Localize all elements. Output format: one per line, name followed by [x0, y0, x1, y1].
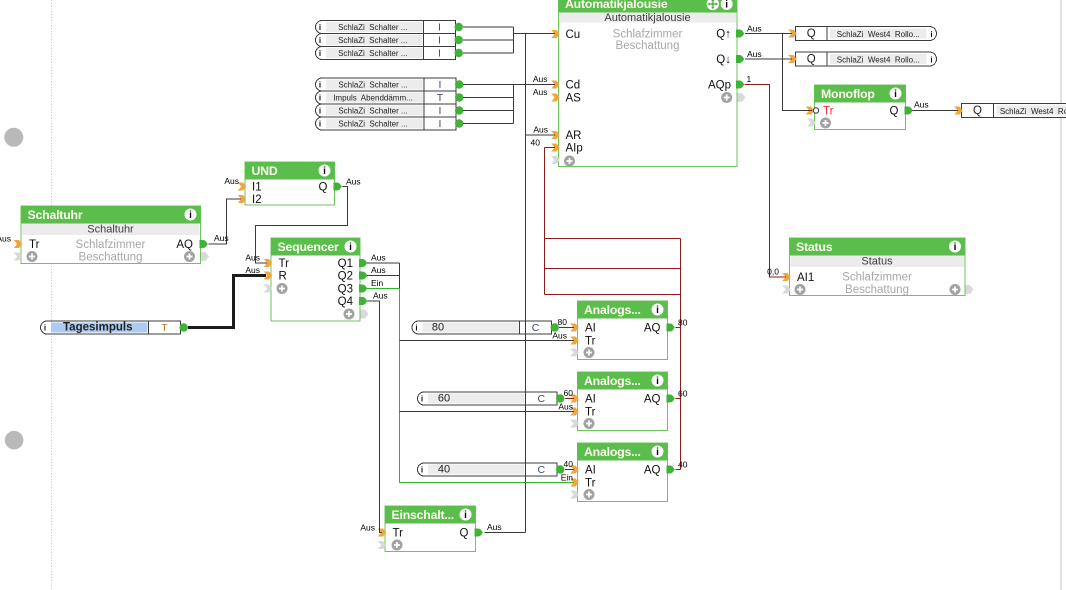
- svg-text:Tagesimpuls: Tagesimpuls: [63, 321, 132, 333]
- pin Q Einschalt: [475, 529, 483, 537]
- page anchor dot bottom: [5, 431, 24, 450]
- expand input plus Schaltuhr: [27, 251, 38, 262]
- icon info UND: [319, 165, 331, 178]
- output stub Schaltuhr: [201, 252, 209, 261]
- input stub AnalogSwitch1: [570, 349, 579, 357]
- block Sequencer U4: [271, 238, 360, 321]
- svg-text:Aus: Aus: [371, 265, 386, 275]
- svg-text:Q: Q: [460, 528, 469, 540]
- svg-text:80: 80: [678, 318, 688, 328]
- block Schaltuhr U2: [21, 206, 201, 264]
- expand input plus Automatikjalousie: [564, 156, 575, 167]
- pin Q UND: [334, 183, 342, 191]
- svg-text:SchlaZi Schalter ...: SchlaZi Schalter ...: [338, 23, 407, 32]
- pin I2: [238, 195, 247, 203]
- svg-text:60: 60: [438, 392, 450, 404]
- svg-text:UND: UND: [252, 164, 278, 178]
- output ref SchlaZi West4 Rollo 2: [796, 52, 937, 66]
- svg-text:AS: AS: [566, 93, 582, 105]
- svg-text:Q↑: Q↑: [716, 29, 731, 41]
- svg-text:SchlaZi West4 Rollo...: SchlaZi West4 Rollo...: [837, 30, 920, 39]
- expand input plus Sequencer: [277, 283, 288, 294]
- input ref SchlaZi Schalter 4: [316, 78, 457, 91]
- svg-text:i: i: [319, 81, 321, 90]
- pin AQ Schaltuhr: [200, 240, 208, 248]
- icon info Status: [949, 241, 961, 254]
- wire Einschalt Q / switches bus to Cu and AR (long vertical x525.5): [485, 34, 556, 533]
- expand output plus Sequencer: [344, 309, 355, 320]
- svg-text:i: i: [319, 49, 321, 58]
- svg-text:Aus: Aus: [214, 233, 229, 243]
- svg-text:40: 40: [438, 463, 450, 475]
- block Automatikjalousie U1: [559, 0, 738, 167]
- output stub Status: [966, 285, 974, 294]
- wire branch to AnalogSwitch1 Tr: [400, 340, 575, 342]
- svg-text:Ein: Ein: [371, 278, 384, 288]
- svg-text:I1: I1: [252, 182, 262, 194]
- page margin dotted line: [51, 0, 53, 589]
- pin AI AnalogSwitch2: [570, 395, 579, 403]
- svg-text:i: i: [323, 166, 326, 177]
- input ref SchlaZi Schalter 6: [316, 117, 457, 130]
- input ref value 40: [418, 463, 557, 476]
- input stub Sequencer: [264, 285, 273, 293]
- svg-text:Schaltuhr: Schaltuhr: [28, 208, 83, 222]
- block AnalogSwitch3 (Analogs...): [578, 443, 668, 502]
- pin Q3: [359, 285, 367, 293]
- svg-text:Aus: Aus: [747, 24, 762, 34]
- wire Schaltuhr AQ to UND I2: [209, 199, 242, 244]
- svg-text:SchlaZi Schalter ...: SchlaZi Schalter ...: [338, 119, 407, 128]
- input ref value 60: [418, 392, 557, 405]
- pin Tr AnalogSwitch3: [570, 479, 579, 487]
- svg-text:I: I: [439, 79, 442, 91]
- svg-text:Q: Q: [319, 182, 328, 194]
- icon info Schaltuhr: [185, 209, 197, 222]
- svg-text:i: i: [319, 36, 321, 45]
- svg-text:SchlaZi West4 Ro: SchlaZi West4 Ro: [1000, 107, 1066, 116]
- pin Q2: [359, 272, 367, 280]
- pin Tr AnalogSwitch2: [570, 408, 579, 416]
- pin R Sequencer: [264, 272, 273, 280]
- svg-text:i: i: [656, 447, 659, 458]
- icon info Monoflop: [890, 88, 902, 101]
- svg-text:T: T: [161, 322, 168, 334]
- input ref SchlaZi Schalter 5: [316, 104, 457, 117]
- input ref Impuls Abenddaemmerung: [316, 91, 456, 104]
- input ref Tagesimpuls (selected): [41, 321, 181, 334]
- input stub Status: [782, 286, 791, 294]
- expand input plus Monoflop: [820, 118, 831, 129]
- svg-text:60: 60: [564, 388, 574, 398]
- svg-text:i: i: [189, 210, 192, 221]
- svg-text:Schaltuhr: Schaltuhr: [87, 224, 134, 236]
- svg-text:I2: I2: [252, 194, 262, 206]
- svg-text:AI: AI: [585, 323, 596, 335]
- pin AQ AnalogSwitch1: [667, 324, 675, 332]
- svg-text:Aus: Aus: [360, 523, 375, 533]
- wire value 40 to AI: [565, 469, 574, 471]
- icon info AnalogSwitch1: [652, 304, 664, 317]
- svg-text:I: I: [439, 105, 442, 117]
- pin Tr Einschalt: [378, 529, 387, 537]
- input stub Automatikjalousie: [551, 156, 560, 164]
- svg-text:AQp: AQp: [708, 80, 731, 92]
- wire Sequencer Q4 to Einschalt Tr: [367, 301, 382, 533]
- svg-text:Cu: Cu: [566, 29, 581, 41]
- wire AQp to Status AI1 (dark red): [745, 85, 787, 278]
- svg-text:AQ: AQ: [644, 323, 661, 335]
- svg-text:i: i: [421, 466, 423, 475]
- wire Sequencer Q3 to AnalogSwitch3 Tr (green, Ein): [367, 289, 574, 483]
- expand input plus Status: [795, 284, 806, 295]
- input stub AnalogSwitch2: [570, 420, 579, 428]
- svg-text:Aus: Aus: [747, 49, 762, 59]
- svg-text:i: i: [319, 120, 321, 129]
- svg-text:Aus: Aus: [373, 291, 388, 301]
- input ref SchlaZi Schalter 1: [316, 21, 456, 34]
- pin Tr Sequencer: [264, 259, 273, 267]
- pin Q-down: [736, 55, 744, 63]
- wire net group2 to Cd (vertical bus x513): [463, 85, 555, 124]
- svg-text:Q: Q: [973, 105, 982, 117]
- wire value 60 to AI: [565, 398, 574, 400]
- svg-text:Automatikjalousie: Automatikjalousie: [565, 0, 668, 11]
- svg-text:Aus: Aus: [346, 177, 361, 187]
- input stub Einschalt: [378, 541, 387, 549]
- svg-text:C: C: [537, 464, 545, 476]
- svg-text:I: I: [438, 48, 441, 60]
- wire AnalogSwitch AQ outputs to AIp (dark red bus): [545, 148, 681, 470]
- svg-text:Impuls Abenddämm...: Impuls Abenddämm...: [333, 93, 413, 102]
- pin Tr Monoflop inverted: [806, 107, 815, 115]
- expand input plus AnalogSwitch2: [584, 418, 595, 429]
- svg-text:Aus: Aus: [533, 125, 548, 135]
- wire net switches to Cu (vertical bus x513): [463, 27, 555, 53]
- svg-text:AI: AI: [585, 465, 596, 477]
- pin AQp: [736, 81, 744, 89]
- svg-text:Monoflop: Monoflop: [821, 87, 875, 101]
- svg-text:AQ: AQ: [644, 394, 661, 406]
- block Monoflop U5: [815, 85, 906, 130]
- svg-text:Tr: Tr: [585, 478, 596, 490]
- icon info Automatikjalousie: [721, 0, 733, 11]
- svg-text:i: i: [421, 395, 423, 404]
- pin Q4: [359, 297, 367, 305]
- svg-text:SchlaZi Schalter ...: SchlaZi Schalter ...: [338, 80, 407, 89]
- input ref SchlaZi Schalter 3: [316, 47, 456, 60]
- svg-text:I: I: [438, 22, 441, 34]
- svg-text:AIp: AIp: [566, 143, 583, 155]
- svg-text:Tr: Tr: [585, 407, 596, 419]
- page anchor dot top: [4, 128, 23, 147]
- svg-text:Q↓: Q↓: [716, 54, 731, 66]
- svg-text:Aus: Aus: [533, 87, 548, 97]
- svg-text:Tr: Tr: [585, 336, 596, 348]
- svg-text:i: i: [319, 107, 321, 116]
- svg-text:40: 40: [678, 460, 688, 470]
- svg-text:i: i: [349, 242, 352, 253]
- expand output plus Schaltuhr: [184, 251, 195, 262]
- svg-text:AR: AR: [566, 130, 582, 142]
- svg-text:i: i: [319, 94, 321, 103]
- output stub Automatikjalousie: [738, 93, 746, 102]
- input stub Schaltuhr: [14, 253, 23, 261]
- svg-text:i: i: [464, 510, 467, 521]
- svg-text:Aus: Aus: [224, 176, 239, 186]
- expand output plus Automatikjalousie: [721, 92, 732, 103]
- input ref value 80: [412, 321, 551, 334]
- svg-text:Q: Q: [890, 106, 899, 118]
- svg-text:Analogs...: Analogs...: [584, 374, 641, 388]
- pin AI1: [782, 273, 791, 281]
- pin Q Monoflop: [905, 107, 913, 115]
- svg-text:Status: Status: [861, 256, 893, 268]
- block UND U3: [245, 162, 335, 205]
- svg-text:i: i: [656, 305, 659, 316]
- svg-text:AI: AI: [585, 394, 596, 406]
- wire Q-up to output ref and Monoflop Tr: [745, 34, 812, 111]
- icon info Sequencer: [345, 241, 357, 254]
- output ref SchlaZi West4 Rollo 1: [796, 27, 937, 41]
- pin Tr Schaltuhr: [14, 240, 23, 248]
- block AnalogSwitch1 (Analogs...): [578, 301, 668, 360]
- icon info AnalogSwitch3: [652, 446, 664, 459]
- icon move crosshair Automatikjalousie: [707, 0, 719, 10]
- svg-text:SchlaZi West4 Rollo...: SchlaZi West4 Rollo...: [837, 55, 920, 64]
- svg-text:Tr: Tr: [279, 258, 290, 270]
- svg-text:Aus: Aus: [371, 253, 386, 263]
- svg-text:Einschalt...: Einschalt...: [392, 508, 455, 522]
- svg-text:40: 40: [531, 138, 541, 148]
- svg-text:i: i: [44, 324, 46, 333]
- svg-text:Q: Q: [807, 54, 816, 66]
- block Status U6: [790, 238, 966, 296]
- svg-text:SchlaZi Schalter ...: SchlaZi Schalter ...: [338, 36, 407, 45]
- svg-text:I: I: [439, 118, 442, 130]
- svg-text:Aus: Aus: [552, 331, 567, 341]
- block Einschaltverzoegerung U10 (Einschalt...): [385, 506, 476, 552]
- svg-text:Aus: Aus: [245, 253, 260, 263]
- expand input plus Einschalt: [392, 540, 403, 551]
- input stub AnalogSwitch3: [570, 491, 579, 499]
- svg-text:Q3: Q3: [338, 284, 353, 296]
- svg-text:i: i: [656, 376, 659, 387]
- svg-text:i: i: [954, 242, 957, 253]
- svg-text:Beschattung: Beschattung: [79, 252, 143, 264]
- input stub Monoflop: [807, 119, 816, 127]
- pin AI AnalogSwitch1: [570, 324, 579, 332]
- svg-text:Beschattung: Beschattung: [845, 284, 909, 296]
- window edge line right: [1060, 0, 1062, 590]
- icon info Einschalt: [460, 509, 472, 522]
- expand input plus AnalogSwitch1: [584, 347, 595, 358]
- pin AI AnalogSwitch3: [570, 466, 579, 474]
- svg-text:AQ: AQ: [176, 239, 193, 251]
- svg-text:80: 80: [432, 321, 444, 333]
- pin Q-up: [736, 30, 744, 38]
- expand input plus AnalogSwitch3: [584, 489, 595, 500]
- svg-text:i: i: [725, 0, 728, 11]
- svg-text:Analogs...: Analogs...: [584, 303, 641, 317]
- svg-text:Aus: Aus: [558, 402, 573, 412]
- svg-text:Schlafzimmer: Schlafzimmer: [613, 29, 683, 41]
- svg-text:Aus: Aus: [487, 522, 502, 532]
- wire branch to AnalogSwitch2 Tr: [400, 411, 575, 413]
- svg-text:40: 40: [564, 459, 574, 469]
- svg-text:i: i: [415, 324, 417, 333]
- pin Cd: [551, 81, 560, 89]
- svg-text:I: I: [438, 35, 441, 47]
- wire value 80 to AI: [559, 327, 574, 329]
- svg-text:Tr: Tr: [29, 239, 40, 251]
- svg-text:Aus: Aus: [914, 100, 929, 110]
- svg-text:Analogs...: Analogs...: [584, 445, 641, 459]
- svg-text:i: i: [894, 89, 897, 100]
- input ref SchlaZi Schalter 2: [316, 34, 456, 47]
- icon info AnalogSwitch2: [652, 375, 664, 388]
- svg-text:Tr: Tr: [823, 106, 834, 118]
- pin Tr AnalogSwitch1: [570, 337, 579, 345]
- wire Tagesimpuls to Sequencer R (selected, thick): [188, 276, 266, 328]
- svg-text:AI1: AI1: [797, 272, 814, 284]
- svg-text:SchlaZi Schalter ...: SchlaZi Schalter ...: [338, 49, 407, 58]
- svg-text:Automatikjalousie: Automatikjalousie: [604, 12, 690, 24]
- pin AQ AnalogSwitch3: [667, 466, 675, 474]
- svg-text:Beschattung: Beschattung: [616, 40, 680, 52]
- svg-text:i: i: [930, 56, 932, 65]
- block AnalogSwitch2 (Analogs...): [578, 372, 668, 431]
- wire Sequencer Q1 Q2 to AnalogSwitch Tr inputs: [367, 263, 400, 412]
- pin Cu: [551, 30, 560, 38]
- svg-text:Q1: Q1: [338, 258, 353, 270]
- svg-text:Sequencer: Sequencer: [278, 240, 339, 254]
- svg-text:Aus: Aus: [0, 234, 11, 244]
- wire UND Q to Sequencer Tr: [256, 187, 348, 264]
- svg-text:AQ: AQ: [644, 465, 661, 477]
- svg-text:Aus: Aus: [533, 74, 548, 84]
- svg-text:Q4: Q4: [338, 296, 354, 308]
- expand output plus Status: [950, 284, 961, 295]
- svg-text:R: R: [279, 271, 287, 283]
- svg-text:Q2: Q2: [338, 271, 353, 283]
- svg-text:Q: Q: [807, 28, 816, 40]
- svg-text:0,0: 0,0: [767, 267, 779, 277]
- svg-text:C: C: [532, 322, 540, 334]
- wire Monoflop Q to output ref: [912, 110, 958, 112]
- pin AR: [551, 131, 560, 139]
- wire Q-down to output ref: [745, 58, 792, 60]
- svg-text:Schlafzimmer: Schlafzimmer: [76, 239, 146, 251]
- svg-text:80: 80: [558, 317, 568, 327]
- svg-text:Status: Status: [796, 240, 833, 254]
- pin I1: [238, 183, 247, 191]
- output ref SchlaZi West4 Rollo 3 (clipped): [962, 104, 1066, 118]
- pin AS: [551, 94, 560, 102]
- svg-text:60: 60: [678, 389, 688, 399]
- svg-text:SchlaZi Schalter ...: SchlaZi Schalter ...: [338, 106, 407, 115]
- svg-text:Aus: Aus: [245, 265, 260, 275]
- pin AIp: [551, 144, 560, 152]
- svg-text:i: i: [319, 23, 321, 32]
- svg-text:Ein: Ein: [561, 473, 574, 483]
- svg-text:T: T: [437, 92, 444, 104]
- pin AQ AnalogSwitch2: [667, 395, 675, 403]
- output stub Sequencer: [361, 310, 369, 319]
- svg-text:C: C: [537, 393, 545, 405]
- svg-text:Schlafzimmer: Schlafzimmer: [842, 272, 912, 284]
- svg-text:Cd: Cd: [566, 80, 581, 92]
- svg-text:Tr: Tr: [393, 528, 404, 540]
- pin Q1: [359, 259, 367, 267]
- svg-text:i: i: [930, 30, 932, 39]
- svg-text:1: 1: [747, 74, 752, 84]
